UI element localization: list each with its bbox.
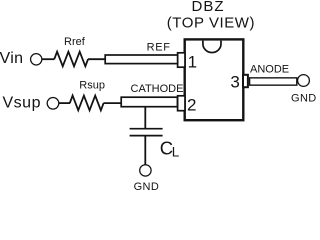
pin 3 lead (ANODE)	[250, 78, 297, 85]
pin 3 stub	[243, 75, 248, 87]
svg-text:GND: GND	[134, 181, 160, 191]
svg-text:Rref: Rref	[64, 36, 86, 48]
wire CATHODE lead down to CL	[144, 107, 146, 129]
pin 1 lead (REF)	[105, 55, 177, 64]
svg-text:3: 3	[230, 73, 239, 92]
svg-text:2: 2	[187, 95, 196, 114]
resistor Rref	[54, 52, 88, 67]
terminal Vsup	[47, 98, 59, 110]
IC U1 package body (DBZ, top view)	[185, 39, 244, 120]
svg-text:(TOP VIEW): (TOP VIEW)	[167, 14, 255, 31]
wire CL down to GND terminal	[144, 136, 146, 165]
terminal GND (anode side)	[298, 75, 310, 87]
pin 2 lead (CATHODE)	[121, 97, 177, 107]
svg-text:1: 1	[188, 53, 197, 72]
svg-text:Vsup: Vsup	[3, 95, 41, 112]
pin 1 stub	[178, 53, 185, 67]
svg-text:CATHODE: CATHODE	[131, 83, 184, 95]
wire Vsup terminal to Rsup	[59, 102, 70, 104]
svg-text:Rsup: Rsup	[79, 80, 105, 92]
resistor Rsup	[70, 96, 104, 111]
svg-text:Vin: Vin	[0, 50, 23, 67]
pin 2 stub	[178, 96, 185, 111]
wire Rsup to CATHODE lead	[104, 102, 122, 104]
capacitor CL	[130, 129, 163, 136]
terminal Vin	[31, 54, 42, 65]
wire Vin terminal to Rref	[42, 58, 55, 60]
svg-text:DBZ: DBZ	[192, 0, 225, 15]
svg-text:ANODE: ANODE	[250, 63, 289, 75]
svg-text:L: L	[172, 144, 180, 159]
terminal GND (below CL)	[140, 165, 151, 176]
package pin-1 index notch	[203, 41, 221, 53]
svg-text:REF: REF	[147, 42, 171, 54]
wire Rref to REF lead	[88, 58, 106, 60]
svg-text:GND: GND	[291, 93, 316, 105]
